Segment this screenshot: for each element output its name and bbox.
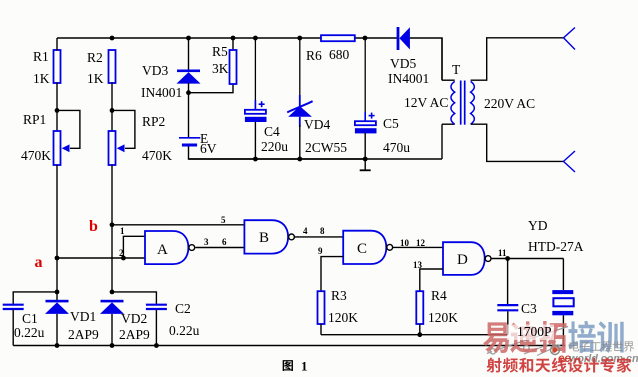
wire VD4 top	[299, 38, 301, 106]
svg-text:D: D	[457, 252, 468, 268]
svg-text:1700P: 1700P	[517, 324, 552, 339]
capacitor C1	[3, 305, 45, 340]
svg-text:8: 8	[320, 226, 325, 236]
svg-text:680: 680	[329, 47, 350, 62]
junction dot R5 top	[231, 36, 236, 41]
svg-text:120K: 120K	[428, 310, 458, 325]
wire node a to gate A pin2	[57, 257, 145, 259]
wire gate C output to gate D pin12	[393, 246, 443, 248]
ground symbol	[360, 159, 371, 170]
junction dot C4 top	[253, 36, 258, 41]
svg-text:A: A	[157, 242, 168, 258]
wire gate D pin13	[420, 269, 443, 291]
svg-text:a: a	[35, 254, 43, 271]
wire C4 bottom	[254, 122, 256, 159]
wire R1 top	[56, 38, 58, 51]
connector chevron bottom	[564, 151, 576, 172]
potentiometer RP1	[21, 110, 80, 165]
svg-text:470u: 470u	[383, 140, 410, 155]
svg-text:C4: C4	[264, 124, 280, 139]
svg-text:1: 1	[301, 359, 308, 374]
svg-text:C: C	[357, 241, 367, 257]
wire rail VD4-C5	[300, 158, 365, 160]
resistor R1	[33, 49, 61, 86]
svg-text:R4: R4	[431, 288, 447, 303]
pin label 6	[222, 237, 227, 247]
wire rail C4-VD4	[255, 158, 299, 160]
svg-text:120K: 120K	[328, 310, 358, 325]
nand gate D U1D	[443, 242, 491, 275]
junction dot C4 rail	[253, 157, 258, 162]
potentiometer RP2	[109, 110, 173, 165]
capacitor C4	[245, 101, 288, 154]
wire R6 right to VD5	[355, 37, 397, 39]
svg-text:C1: C1	[22, 311, 38, 326]
wire node b to gate B pin5	[112, 224, 244, 226]
svg-text:5: 5	[221, 215, 226, 225]
zener diode VD4	[287, 101, 347, 155]
svg-text:C2: C2	[175, 301, 191, 316]
svg-text:VD2: VD2	[121, 311, 147, 326]
svg-text:6V: 6V	[200, 141, 217, 156]
pin label 2	[119, 248, 124, 258]
svg-text:YD: YD	[528, 218, 548, 233]
wire gate C pin9	[321, 257, 343, 292]
svg-text:R6: R6	[306, 48, 322, 63]
svg-text:13: 13	[413, 260, 423, 270]
pin label 10	[400, 238, 410, 248]
diode VD1	[45, 258, 99, 342]
svg-text:1K: 1K	[33, 71, 50, 86]
svg-text:RP2: RP2	[142, 114, 165, 129]
wire VD3 top	[188, 38, 190, 70]
svg-text:C3: C3	[521, 301, 537, 316]
wire C2 top	[112, 292, 156, 304]
svg-text:RP1: RP1	[23, 112, 46, 127]
wire RP2 bottom to node b	[111, 165, 113, 225]
watermark logo dot	[551, 346, 560, 355]
svg-text:b: b	[89, 218, 98, 235]
wire supply ground rail	[189, 158, 443, 160]
svg-text:12V AC: 12V AC	[404, 95, 448, 110]
wire VD2 bottom	[111, 314, 113, 346]
svg-text:R3: R3	[331, 288, 347, 303]
wire C2 bottom	[155, 310, 157, 346]
svg-text:2AP9: 2AP9	[119, 327, 150, 342]
svg-text:0.22u: 0.22u	[14, 325, 45, 340]
wire C3 top	[507, 259, 509, 306]
wire C1 top	[13, 292, 57, 304]
svg-text:3: 3	[204, 237, 209, 247]
junction dot output 11	[505, 256, 510, 261]
svg-text:2CW55: 2CW55	[305, 140, 347, 155]
svg-text:2AP9: 2AP9	[68, 327, 99, 342]
pin label 12	[416, 238, 426, 248]
label YD	[528, 218, 548, 233]
svg-text:VD4: VD4	[304, 117, 330, 132]
wire VD5 cathode to transformer corner	[410, 38, 442, 80]
wire C1 bottom	[12, 310, 14, 346]
pin label 8	[320, 226, 325, 236]
diode VD2	[100, 300, 150, 342]
label HTD-27A	[528, 239, 584, 254]
svg-text:VD5: VD5	[390, 56, 416, 71]
wire piezo top	[562, 259, 564, 291]
wire VD3 junction to R5 bottom	[189, 84, 234, 93]
capacitor C3	[497, 301, 551, 339]
node a label	[35, 254, 43, 271]
pin label 3	[204, 237, 209, 247]
svg-text:HTD-27A: HTD-27A	[528, 239, 584, 254]
svg-text:220V AC: 220V AC	[484, 96, 535, 111]
svg-text:1K: 1K	[87, 71, 104, 86]
nand gate B U1B	[244, 220, 294, 253]
svg-text:11: 11	[498, 248, 507, 258]
svg-text:6: 6	[222, 237, 227, 247]
wire C5 bottom	[364, 133, 366, 159]
transformer core	[461, 81, 465, 125]
svg-text:3K: 3K	[212, 61, 229, 76]
value label 1700P knockout	[507, 324, 554, 340]
junction dot R2 top	[110, 36, 115, 41]
pin label 1	[120, 226, 125, 236]
watermark 电子工程世界	[569, 341, 634, 352]
wire pin1 connector	[123, 236, 145, 258]
resistor R4	[416, 288, 458, 325]
svg-text:470K: 470K	[21, 148, 51, 163]
wire C3 bottom	[507, 311, 509, 334]
junction dot VD4 top	[297, 36, 302, 41]
pin label 9	[318, 246, 323, 256]
battery E	[179, 131, 217, 156]
watermark url	[558, 353, 638, 365]
watermark brand 易迪拓培训	[483, 321, 624, 353]
svg-text:470K: 470K	[142, 148, 172, 163]
resistor R5	[212, 38, 237, 84]
pin label 13	[413, 260, 423, 270]
watermark sketch lines	[487, 327, 568, 356]
pin label 11	[498, 248, 507, 258]
wire main ground rail	[13, 345, 565, 347]
junction dot RP2 wiper tap	[110, 108, 115, 113]
svg-text:R1: R1	[33, 49, 49, 64]
wire VD4 bottom	[299, 125, 301, 159]
svg-text:9: 9	[318, 246, 323, 256]
wire R2 bottom to RP2	[111, 83, 113, 132]
svg-text:B: B	[259, 230, 269, 246]
connector chevron top	[564, 28, 576, 50]
wire piezo bottom	[562, 315, 564, 345]
capacitor C5	[355, 113, 410, 155]
wire gate A output	[196, 247, 245, 249]
svg-text:1: 1	[120, 226, 125, 236]
wire R3 bottom	[320, 324, 322, 335]
junction dot rail VD1	[55, 343, 60, 348]
wire rail2 crossing down	[111, 225, 113, 292]
capacitor C2	[146, 301, 200, 338]
pin label 5	[221, 215, 226, 225]
nand gate C U1C	[343, 231, 392, 264]
wire oscillator node X	[321, 334, 508, 336]
wire RP1 bottom to node a	[56, 165, 58, 258]
svg-text:IN4001: IN4001	[388, 71, 429, 86]
piezo sounder YD HTD-27A	[552, 290, 573, 315]
resistor R2	[87, 50, 116, 86]
diode VD3	[141, 63, 201, 100]
svg-text:0.22u: 0.22u	[169, 323, 200, 338]
junction dot pin1 tie	[121, 256, 126, 261]
junction dot RP1 wiper tap	[55, 108, 60, 113]
junction dot node X R4	[417, 332, 422, 337]
junction dot node b	[110, 222, 115, 227]
wire C5 top	[364, 38, 366, 121]
wire R4 bottom	[419, 324, 421, 335]
wire VD3 to E	[188, 83, 190, 137]
junction dot VD3-R5	[186, 90, 191, 95]
wire gate D output	[491, 258, 563, 260]
svg-text:R5: R5	[212, 44, 228, 59]
wire E bottom corner	[189, 147, 256, 160]
svg-text:10: 10	[400, 238, 410, 248]
nand gate A U1A	[145, 231, 195, 264]
junction dot node a	[55, 256, 60, 261]
pin label 4	[303, 226, 308, 236]
junction dot rail C2	[154, 343, 159, 348]
wire VD1 bottom	[56, 314, 58, 346]
transformer T primary 12V side	[404, 38, 461, 159]
svg-text:C5: C5	[383, 116, 399, 131]
wire top rail left section	[57, 37, 321, 39]
junction dot C5 rail	[363, 157, 368, 162]
resistor R6	[306, 35, 355, 63]
svg-text:12: 12	[416, 238, 426, 248]
caption 图 1	[283, 359, 308, 374]
watermark slogan 射频和天线设计专家	[487, 357, 632, 372]
svg-text:4: 4	[303, 226, 308, 236]
junction dot R6 right	[363, 36, 368, 41]
junction dot VD4 rail	[297, 157, 302, 162]
svg-text:2: 2	[119, 248, 124, 258]
junction dot VD2 top wire	[110, 290, 115, 295]
svg-text:220u: 220u	[261, 139, 288, 154]
wire R1 bottom to RP1	[56, 83, 58, 132]
svg-text:T: T	[452, 62, 461, 77]
svg-text:IN4001: IN4001	[141, 85, 182, 100]
resistor R3	[318, 288, 359, 325]
svg-text:VD1: VD1	[70, 309, 96, 324]
wire C4 top	[254, 38, 256, 110]
junction dot VD3 top	[186, 36, 191, 41]
transformer T secondary 220V side	[471, 38, 564, 162]
junction dot rail VD2	[110, 343, 115, 348]
svg-text:VD3: VD3	[142, 63, 168, 78]
svg-text:R2: R2	[87, 50, 103, 65]
wire gate B output to gate C pin8	[295, 236, 344, 238]
node b label	[89, 218, 98, 235]
diode VD5	[388, 27, 429, 86]
junction dot VD1 top wire	[55, 290, 60, 295]
